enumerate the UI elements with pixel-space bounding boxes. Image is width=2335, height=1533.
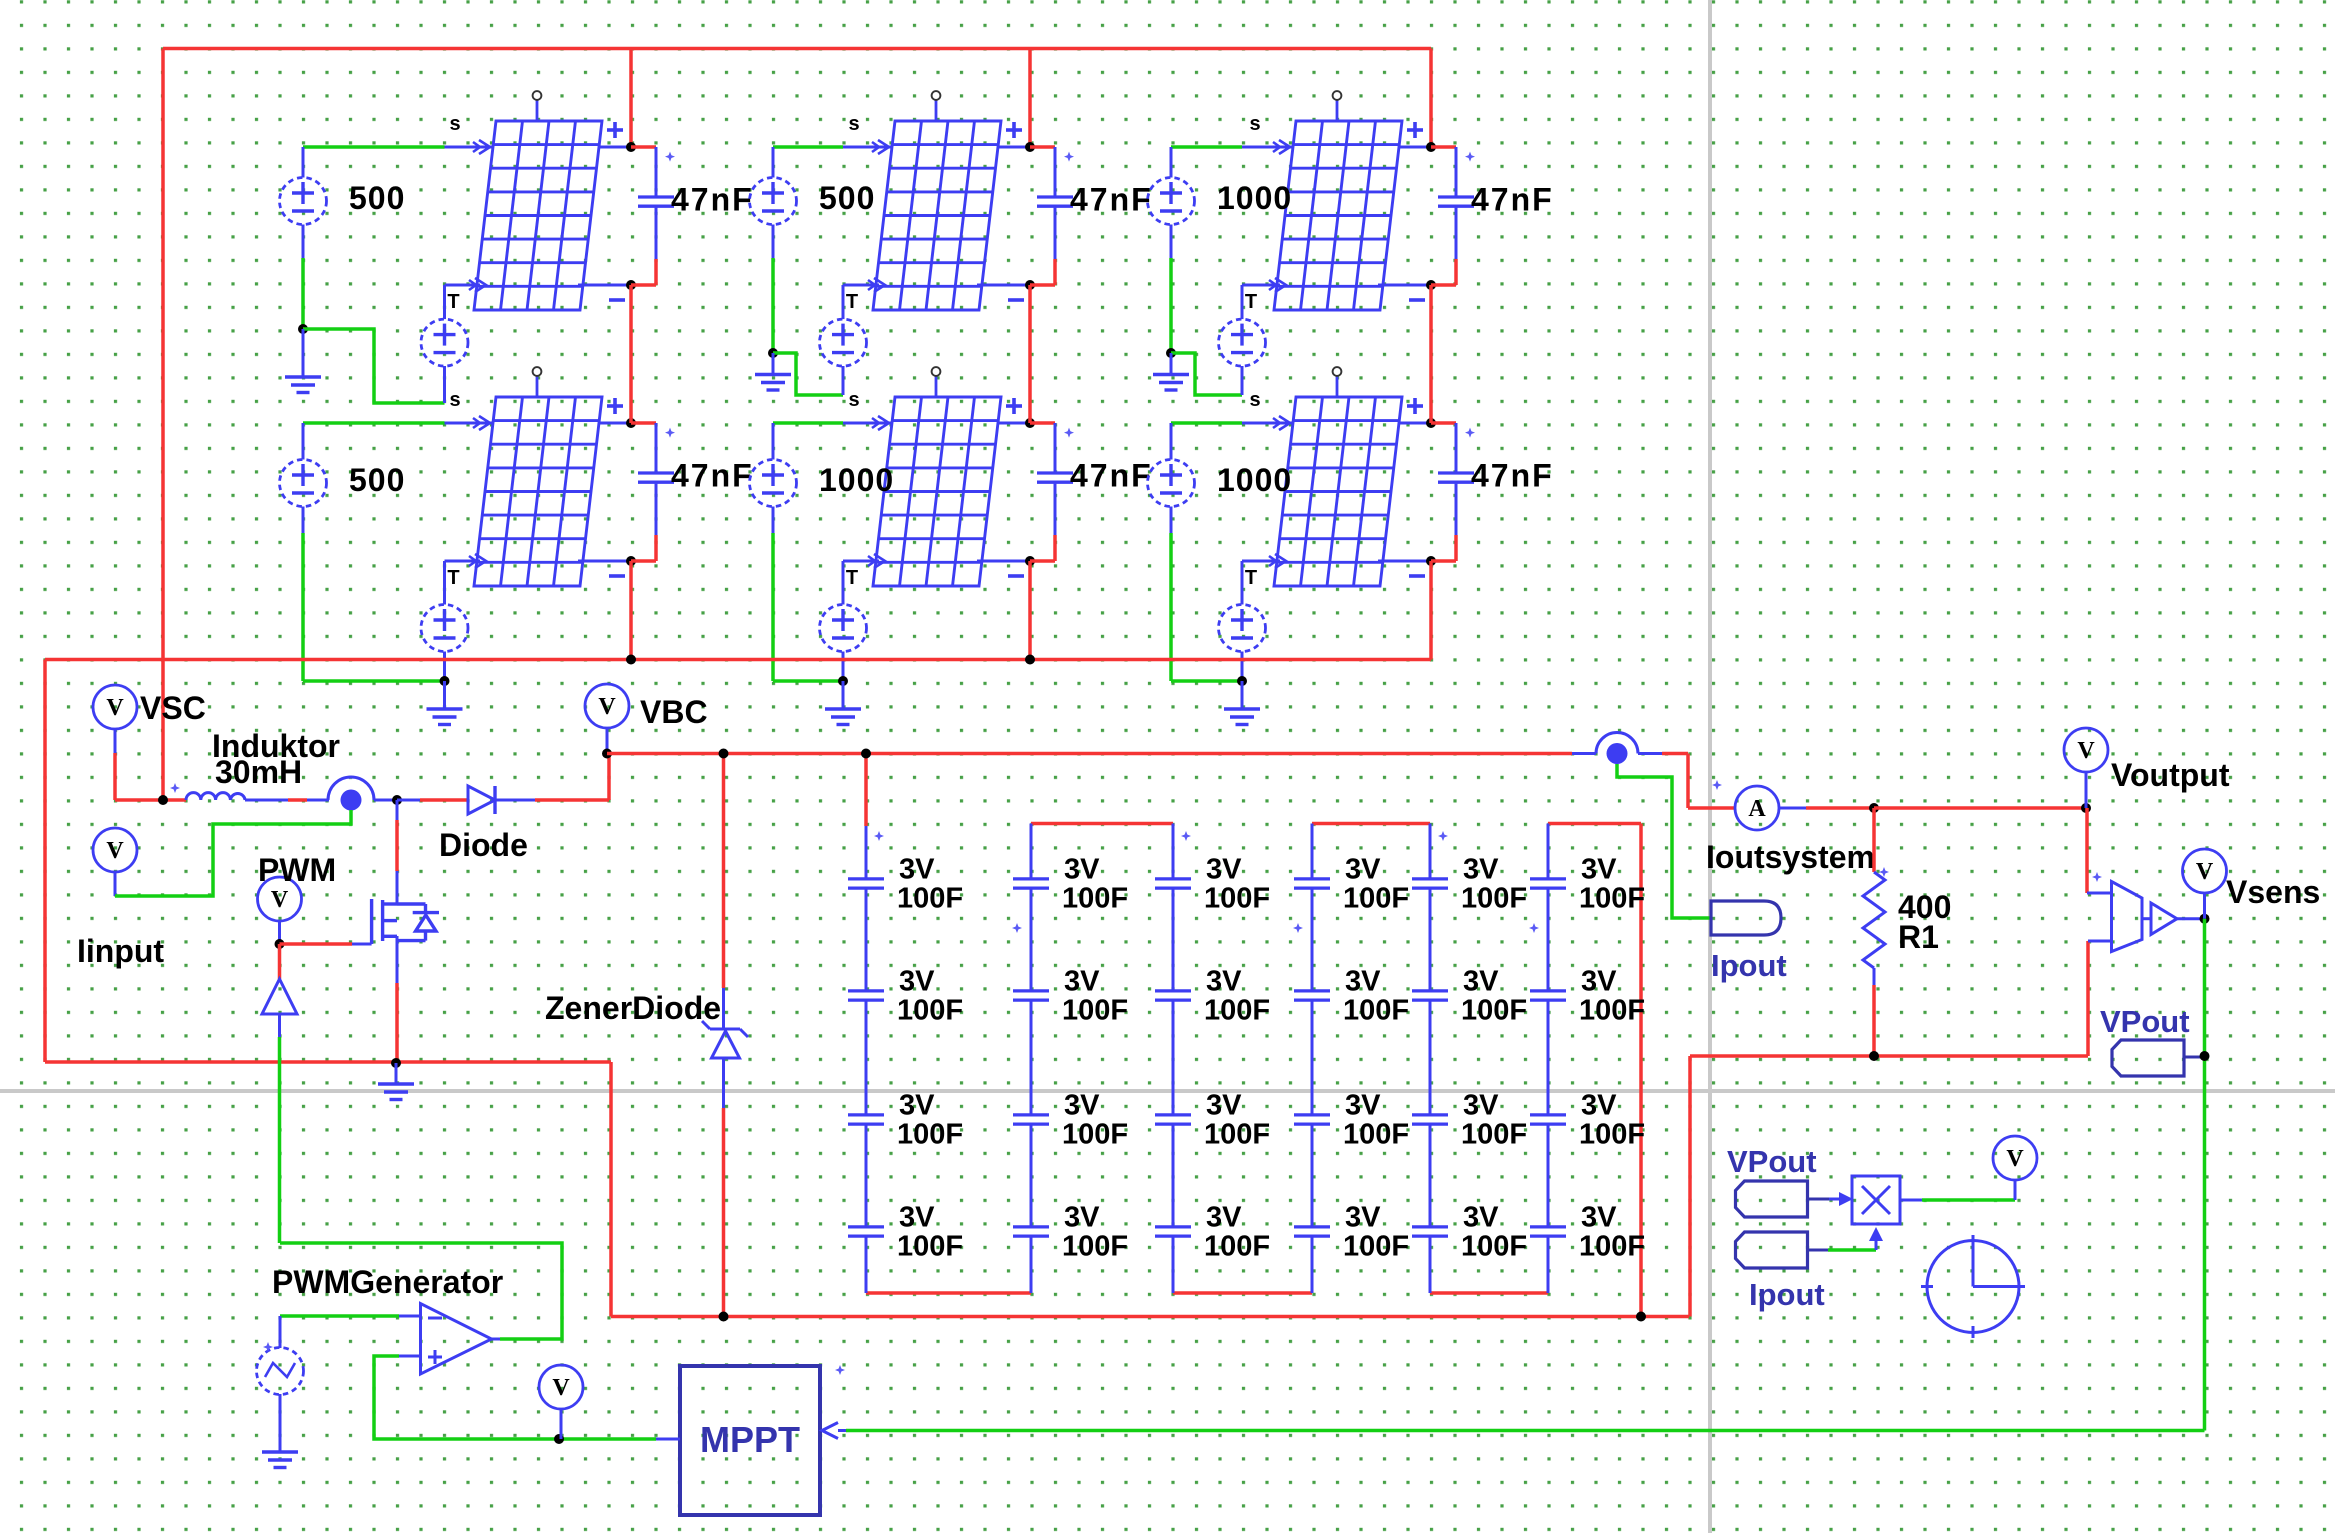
wire: green jog row1 col2 (773, 353, 843, 395)
voltmeter Iinput (93, 828, 137, 872)
wire: V meter lead (560, 1409, 563, 1439)
svg-text:Ipout: Ipout (1711, 948, 1787, 983)
capacitor 3V 100F S1C2 (848, 991, 884, 1000)
plus sign M12 (607, 404, 623, 408)
capacitor 3V 100F S6C4 (1530, 1227, 1566, 1236)
wire: T input M22 (843, 560, 879, 563)
capacitor 3V 100F S3C4 (1155, 1227, 1191, 1236)
wire: temp src2 bottom lead col3 (1241, 652, 1244, 682)
minus sign M22 (1008, 574, 1024, 578)
wire: bottom rail strings 1-2 (866, 1291, 1031, 1295)
junction row1 col3 (1166, 348, 1176, 358)
capacitor 3V 100F S1C3 (848, 1115, 884, 1124)
wire: temp src1 bottom lead col1 (443, 366, 446, 403)
capacitor 3V 100F S5C2 (1412, 991, 1448, 1000)
wire: bottom rail strings 3-4 (1173, 1291, 1312, 1295)
svg-text:47nF: 47nF (1471, 182, 1554, 218)
junction row2 col1 (440, 676, 450, 686)
svg-text:3V: 3V (1064, 1090, 1100, 1122)
ground row1 col1 (285, 377, 321, 393)
junction + M31 (1426, 142, 1436, 152)
wire: VPout tag to green (2184, 1056, 2205, 1059)
current probe node on inductor wire (328, 777, 374, 800)
wire: - terminal M11 (578, 284, 631, 287)
wire: red series chain col3 (1429, 285, 1433, 423)
junction Vsens (2200, 914, 2210, 924)
wire: temp source to T pin M11 (443, 285, 446, 319)
terminal of M22 (935, 376, 938, 397)
wire: zener top (722, 754, 726, 989)
capacitor 47nF C32 (1431, 421, 1456, 425)
svg-text:VSC: VSC (140, 690, 206, 726)
wire: ground stub under MOSFET (395, 1063, 398, 1084)
signal input arrow to PWM (278, 944, 282, 979)
wire: minus input (280, 1314, 399, 1318)
source V22 value 1000 (750, 460, 797, 507)
svg-text:3V: 3V (1463, 1090, 1499, 1122)
junction zener bottom (719, 1312, 729, 1322)
svg-text:3V: 3V (1345, 854, 1381, 886)
wire: node to ammeter corner (1638, 752, 1662, 755)
temperature source T21 (820, 319, 867, 366)
svg-text:3V: 3V (1463, 966, 1499, 998)
source V21 value 500 (750, 178, 797, 225)
svg-text:100F: 100F (1062, 883, 1128, 915)
svg-text:s: s (449, 113, 460, 135)
ground row1 col3 (1153, 375, 1189, 391)
wire: green from Vsens to MPPT (846, 1429, 2205, 1433)
wire: green bottom row2 col2 (773, 679, 843, 683)
svg-text:3V: 3V (1206, 1090, 1242, 1122)
svg-text:3V: 3V (1581, 854, 1617, 886)
triangle wave source (257, 1348, 304, 1395)
voltmeter near MPPT (539, 1365, 583, 1409)
capacitor 3V 100F S3C1 (1155, 879, 1191, 888)
svg-text:T: T (1245, 291, 1257, 313)
wire: PWM signal down (278, 1014, 281, 1037)
wire: temp src1 bottom lead col2 (842, 366, 845, 395)
svg-text:100F: 100F (1062, 1119, 1128, 1151)
junction + M22 (1025, 418, 1035, 428)
plus sign M22 (1006, 404, 1022, 408)
diode D1 (468, 786, 495, 814)
svg-text:500: 500 (349, 462, 405, 498)
signal tag VPout (goal) (2112, 1040, 2184, 1076)
wire: temp source to T pin M32 (1241, 561, 1244, 605)
junction bank right bottom (1636, 1312, 1646, 1322)
PV module M22 (873, 397, 1001, 586)
wire: src2 bottom lead col1 (302, 507, 305, 534)
signal tag VPout (source) (1736, 1181, 1808, 1217)
terminal of M31 (1336, 100, 1339, 121)
svg-text:s: s (449, 389, 460, 411)
capacitor 3V 100F S4C4 (1294, 1227, 1330, 1236)
capacitor 47nF C21 (1030, 145, 1055, 149)
wire: green bottom row2 col3 (1171, 679, 1242, 683)
wire: red drop from top bus to col3 (1429, 49, 1433, 148)
wire: - terminal M12 (578, 560, 631, 563)
wire: source top lead V32 (1170, 423, 1173, 460)
capacitor 3V 100F S2C1 (1013, 879, 1049, 888)
junction + M12 (626, 418, 636, 428)
minus sign M21 (1008, 298, 1024, 302)
junction row2 col3 (1237, 676, 1247, 686)
junction + M32 (1426, 418, 1436, 428)
junction string1 top (861, 749, 871, 759)
wire: - terminal M32 (1378, 560, 1431, 563)
svg-text:s: s (848, 113, 859, 135)
svg-text:T: T (846, 291, 858, 313)
wire: triangle source bottom lead (279, 1394, 282, 1452)
capacitor 3V 100F S2C4 (1013, 1227, 1049, 1236)
junction - M11 (626, 280, 636, 290)
wire: MOSFET source down (396, 936, 399, 983)
wire: - terminal M22 (977, 560, 1030, 563)
svg-text:47nF: 47nF (1070, 458, 1153, 494)
node hop at output bus (1596, 733, 1638, 754)
svg-text:500: 500 (349, 180, 405, 216)
wire: - terminal M31 (1378, 284, 1431, 287)
capacitor 3V 100F S2C3 (1013, 1115, 1049, 1124)
wire: to inductor (115, 798, 186, 802)
junction - M22 (1025, 556, 1035, 566)
wire: source top lead V12 (302, 423, 305, 460)
svg-text:100F: 100F (1461, 1231, 1527, 1263)
wire: node green to Ipout (1617, 764, 1711, 918)
wire: top rail strings 2-3 (1031, 822, 1173, 826)
wire: + terminal M32 (1398, 422, 1431, 425)
svg-text:100F: 100F (897, 995, 963, 1027)
wire: T input M12 (445, 560, 481, 563)
temperature source T31 (1219, 319, 1266, 366)
voltmeter PWM (258, 877, 302, 921)
capacitor 47nF C11 (631, 145, 656, 149)
junction - M21 (1025, 280, 1035, 290)
wire: string1 top stub (864, 754, 868, 827)
wire: bottom-left red horizontal (45, 1060, 611, 1064)
temperature source T12 (421, 605, 468, 652)
wire: up to VBC junction (607, 754, 611, 801)
svg-text:ZenerDiode: ZenerDiode (545, 990, 721, 1026)
svg-text:30mH: 30mH (215, 754, 302, 790)
plus sign M11 (607, 128, 623, 132)
svg-text:100F: 100F (1343, 995, 1409, 1027)
wire: source top lead V21 (772, 147, 775, 178)
wire: ground stub row2 col1 (443, 681, 446, 709)
junction diode node (392, 795, 402, 805)
wire: ground stub row1 col3 (1170, 353, 1173, 375)
voltmeter Vsens (2183, 849, 2227, 893)
supercap string 2 (1030, 824, 1033, 878)
wire: PWM lead (278, 921, 281, 944)
PV module M31 (1274, 121, 1402, 310)
capacitor 3V 100F S6C3 (1530, 1115, 1566, 1124)
wire: red drop from top bus to col1 (629, 49, 633, 148)
svg-text:3V: 3V (1345, 966, 1381, 998)
svg-text:100F: 100F (1204, 1119, 1270, 1151)
wire: multiplier output (1900, 1199, 1922, 1202)
svg-text:100F: 100F (1062, 1231, 1128, 1263)
svg-text:100F: 100F (1579, 883, 1645, 915)
wire: R1 bottom bus (1690, 1054, 2088, 1058)
svg-text:T: T (846, 567, 858, 589)
svg-text:1000: 1000 (1217, 462, 1292, 498)
wire: feedback green loop (280, 1243, 562, 1339)
junction MOSFET source (391, 1058, 401, 1068)
wire: green jog row1 col3 (1171, 353, 1242, 395)
supercap string 1 (865, 826, 868, 878)
capacitor 3V 100F S5C4 (1412, 1227, 1448, 1236)
wire: T input M31 (1242, 284, 1280, 287)
minus sign M11 (609, 298, 625, 302)
wire: source top lead V31 (1170, 147, 1173, 178)
capacitor 3V 100F S5C1 (1412, 879, 1448, 888)
plus sign M21 (1006, 128, 1022, 132)
svg-text:VPout: VPout (1727, 1144, 1817, 1179)
svg-text:100F: 100F (1062, 995, 1128, 1027)
svg-text:3V: 3V (1463, 854, 1499, 886)
wire: ground stub row2 col2 (842, 681, 845, 709)
signal mux (voltage sensor) (2112, 882, 2143, 952)
capacitor 3V 100F S3C2 (1155, 991, 1191, 1000)
capacitor 3V 100F S5C3 (1412, 1115, 1448, 1124)
capacitor 3V 100F S1C1 (848, 879, 884, 888)
svg-text:VBC: VBC (640, 694, 708, 730)
capacitor 47nF C22 (1030, 421, 1055, 425)
wire: triangle source top lead (279, 1316, 282, 1348)
wire: top red bus (163, 47, 1431, 51)
wire: src1 bottom lead col3 (1170, 225, 1173, 259)
wire: src2 bottom lead col2 (772, 507, 775, 534)
svg-text:100F: 100F (1579, 1119, 1645, 1151)
minus sign M32 (1409, 574, 1425, 578)
wire: S input M12 (303, 421, 445, 425)
junction R1 top (1869, 803, 1879, 813)
svg-text:100F: 100F (1204, 995, 1270, 1027)
wire: temp src2 bottom lead col2 (842, 652, 845, 682)
wire: ammeter out (1779, 807, 1806, 810)
PV module M12 (474, 397, 602, 586)
source V32 value 1000 (1148, 460, 1195, 507)
junction Voutput (2081, 803, 2091, 813)
wire: S input M22 (773, 421, 843, 425)
supercap string 3 (1172, 824, 1175, 878)
svg-text:3V: 3V (1064, 966, 1100, 998)
plus sign M31 (1407, 128, 1423, 132)
wire: Voutput lead (2085, 772, 2088, 808)
wire: src1 bottom lead col2 (772, 225, 775, 259)
svg-text:100F: 100F (1461, 995, 1527, 1027)
svg-text:47nF: 47nF (671, 458, 754, 494)
junctions on middle bus (626, 655, 636, 665)
svg-text:100F: 100F (897, 1231, 963, 1263)
wire: + terminal M22 (997, 422, 1030, 425)
wire: plus input (399, 1355, 421, 1358)
minus sign M12 (609, 574, 625, 578)
svg-text:3V: 3V (1345, 1090, 1381, 1122)
svg-text:1000: 1000 (819, 462, 894, 498)
wire: probe to diode junction (374, 799, 397, 802)
svg-text:3V: 3V (1581, 1202, 1617, 1234)
svg-text:3V: 3V (1463, 1202, 1499, 1234)
wire: left red vertical (161, 49, 165, 801)
wire: bottom rail strings 5-6 (1430, 1291, 1548, 1295)
PV module M11 (474, 121, 602, 310)
clock / scope symbol (1921, 1235, 2025, 1338)
wire: temp source to T pin M31 (1241, 285, 1244, 319)
svg-text:Vsens: Vsens (2226, 874, 2320, 910)
svg-text:R1: R1 (1898, 919, 1939, 955)
voltmeter VSC (93, 685, 137, 729)
svg-text:3V: 3V (899, 966, 935, 998)
svg-text:3V: 3V (1345, 1202, 1381, 1234)
wire: middle red bus (45, 658, 1431, 662)
svg-text:3V: 3V (1064, 1202, 1100, 1234)
svg-text:100F: 100F (1343, 1231, 1409, 1263)
MPPT right input arrow (822, 1423, 838, 1439)
terminal of M32 (1336, 376, 1339, 397)
minus sign M31 (1409, 298, 1425, 302)
svg-text:Voutput: Voutput (2111, 757, 2230, 793)
capacitor 3V 100F S4C2 (1294, 991, 1330, 1000)
junction MPPT V meter (554, 1434, 564, 1444)
wire: VPout to multiplier (1808, 1198, 1830, 1201)
wire: left drop to bottom bus (1688, 1056, 1692, 1317)
temperature source T11 (421, 319, 468, 366)
wire: Iinput green sense (114, 872, 117, 896)
wire: src1 bottom lead col1 (302, 225, 305, 259)
wire: temp source to T pin M22 (842, 561, 845, 605)
svg-text:3V: 3V (1064, 854, 1100, 886)
wire: Vsens meter lead (2203, 893, 2206, 919)
svg-text:47nF: 47nF (1471, 458, 1554, 494)
wire: opamp output (492, 1338, 501, 1341)
capacitor 47nF C31 (1431, 145, 1456, 149)
junction row1 col1 (298, 324, 308, 334)
svg-text:100F: 100F (1343, 883, 1409, 915)
wire: S input M11 (303, 145, 445, 149)
wire: S input M21 (773, 145, 843, 149)
wire: gate lead (280, 942, 353, 946)
svg-text:3V: 3V (1206, 966, 1242, 998)
svg-text:100F: 100F (1204, 1231, 1270, 1263)
junction PWM gate (275, 939, 285, 949)
svg-text:47nF: 47nF (1070, 182, 1153, 218)
temperature source T22 (820, 605, 867, 652)
svg-text:T: T (1245, 567, 1257, 589)
svg-text:100F: 100F (1204, 883, 1270, 915)
wire: temp source to T pin M21 (842, 285, 845, 319)
ground row2 col1 (427, 709, 463, 725)
capacitor 3V 100F S1C4 (848, 1227, 884, 1236)
wire: src2 bottom lead col3 (1170, 507, 1173, 534)
wire: to Voutput junction (1874, 806, 2087, 810)
junction - M32 (1426, 556, 1436, 566)
wire: + terminal M21 (997, 146, 1030, 149)
PV module M21 (873, 121, 1001, 310)
wire: top rail strings 4-5 (1312, 822, 1430, 826)
capacitor 3V 100F S4C3 (1294, 1115, 1330, 1124)
signal tag Ipout (output current goal) (1711, 901, 1781, 935)
inductor L1 30mH (186, 793, 245, 800)
wire: source top lead V22 (772, 423, 775, 460)
svg-text:100F: 100F (897, 883, 963, 915)
wire: S input M31 (1171, 145, 1242, 149)
svg-text:100F: 100F (1461, 883, 1527, 915)
buffer triangle Vsens (2142, 917, 2151, 920)
svg-text:100F: 100F (1579, 995, 1645, 1027)
wire: T input M11 (445, 284, 481, 287)
svg-text:PWMGenerator: PWMGenerator (272, 1264, 503, 1300)
junction + M11 (626, 142, 636, 152)
ground row2 col3 (1224, 709, 1260, 725)
wire: S input M32 (1171, 421, 1242, 425)
signal tag Ipout (source) (1736, 1232, 1808, 1268)
svg-text:3V: 3V (899, 1090, 935, 1122)
ground row2 col2 (825, 709, 861, 725)
MPPT block (680, 1366, 820, 1515)
svg-text:100F: 100F (1461, 1119, 1527, 1151)
terminal of M12 (536, 376, 539, 397)
wire: to diode (397, 799, 420, 802)
svg-text:Ioutsystem: Ioutsystem (1706, 839, 1875, 875)
wire: red drop from top bus to col2 (1028, 49, 1032, 148)
ground row1 col2 (755, 375, 791, 391)
junction VPout (2200, 1051, 2210, 1061)
svg-text:VPout: VPout (2100, 1004, 2190, 1039)
wire: + terminal M31 (1398, 146, 1431, 149)
svg-text:T: T (447, 291, 459, 313)
wire: + terminal M12 (598, 422, 631, 425)
wire: + terminal M11 (598, 146, 631, 149)
junction VBC (602, 749, 612, 759)
svg-text:s: s (1249, 113, 1260, 135)
wire: Voutput junction to mux top input (2085, 808, 2089, 893)
capacitor 3V 100F S2C2 (1013, 991, 1049, 1000)
capacitor 3V 100F S3C3 (1155, 1115, 1191, 1124)
junction row1 col2 (768, 348, 778, 358)
source V11 value 500 (280, 178, 327, 225)
wire: red down to bottom bus (609, 1062, 613, 1317)
svg-text:T: T (447, 567, 459, 589)
wire: bottom red bus (611, 1315, 1689, 1319)
wire: green Vsens feedback down (2203, 919, 2207, 1431)
svg-text:Iinput: Iinput (77, 933, 164, 969)
wire: ground stub row1 col2 (772, 353, 775, 375)
svg-text:3V: 3V (899, 1202, 935, 1234)
wire: MPPT left input (656, 1438, 680, 1441)
svg-text:47nF: 47nF (671, 182, 754, 218)
voltmeter VBC (585, 684, 629, 728)
ground under triangle source (262, 1452, 298, 1468)
junction R1 bottom (1869, 1051, 1879, 1061)
ground under MOSFET (378, 1084, 414, 1100)
svg-text:3V: 3V (1206, 1202, 1242, 1234)
svg-text:100F: 100F (1343, 1119, 1409, 1151)
voltmeter Voutput (2064, 728, 2108, 772)
svg-text:1000: 1000 (1217, 180, 1292, 216)
capacitor 3V 100F S6C1 (1530, 879, 1566, 888)
wire: red series chain col2 (1028, 285, 1032, 423)
wire: right red drop of bank (1639, 824, 1643, 1317)
wire: left red down (43, 660, 47, 1063)
wire: right riser to mux (2086, 941, 2090, 1056)
source V31 value 1000 (1148, 178, 1195, 225)
plus sign M32 (1407, 404, 1423, 408)
svg-text:3V: 3V (899, 854, 935, 886)
svg-text:3V: 3V (1581, 1090, 1617, 1122)
svg-text:3V: 3V (1206, 854, 1242, 886)
